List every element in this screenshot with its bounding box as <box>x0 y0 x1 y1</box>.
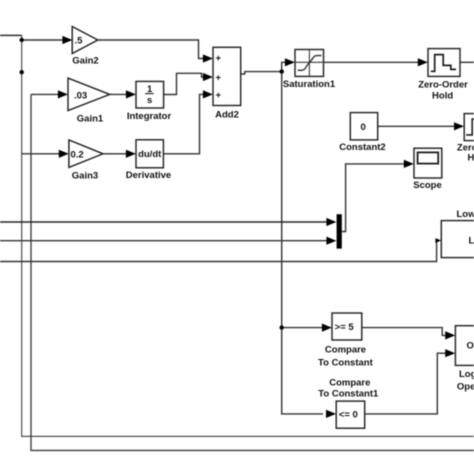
svg-text:Scope: Scope <box>413 180 442 191</box>
svg-text:Constant2: Constant2 <box>339 142 385 153</box>
svg-text:0: 0 <box>361 122 366 133</box>
svg-text:Hold1: Hold1 <box>468 153 474 164</box>
svg-text:Saturation1: Saturation1 <box>283 79 336 90</box>
svg-text:.03: .03 <box>74 91 87 102</box>
svg-text:Derivative: Derivative <box>126 170 171 181</box>
svg-text:To Constant: To Constant <box>318 357 374 368</box>
svg-text:Gain2: Gain2 <box>72 56 98 67</box>
svg-text:<= 0: <= 0 <box>339 410 358 421</box>
svg-text:To Constant1: To Constant1 <box>318 389 379 400</box>
svg-text:.5: .5 <box>75 36 84 47</box>
svg-text:OR: OR <box>467 340 474 351</box>
svg-text:+: + <box>216 73 222 84</box>
svg-text:L: L <box>469 235 474 246</box>
svg-text:+: + <box>216 90 222 101</box>
svg-text:Logical: Logical <box>459 369 474 380</box>
svg-text:du/dt: du/dt <box>138 149 162 160</box>
svg-text:Compare: Compare <box>325 345 366 356</box>
svg-text:Add2: Add2 <box>215 109 239 120</box>
svg-text:Gain3: Gain3 <box>72 171 98 182</box>
svg-text:+: + <box>216 53 222 64</box>
svg-text:>= 5: >= 5 <box>335 322 355 333</box>
svg-text:Hold: Hold <box>432 90 453 101</box>
svg-text:Compare: Compare <box>329 377 370 388</box>
svg-text:Integrator: Integrator <box>127 111 172 122</box>
svg-text:Operator: Operator <box>457 382 474 393</box>
svg-text:Zero-Order: Zero-Order <box>418 79 468 90</box>
svg-text:s: s <box>147 95 152 106</box>
svg-text:0.2: 0.2 <box>71 150 84 161</box>
svg-text:Lower: Lower <box>457 209 474 220</box>
svg-text:Gain1: Gain1 <box>77 114 104 125</box>
